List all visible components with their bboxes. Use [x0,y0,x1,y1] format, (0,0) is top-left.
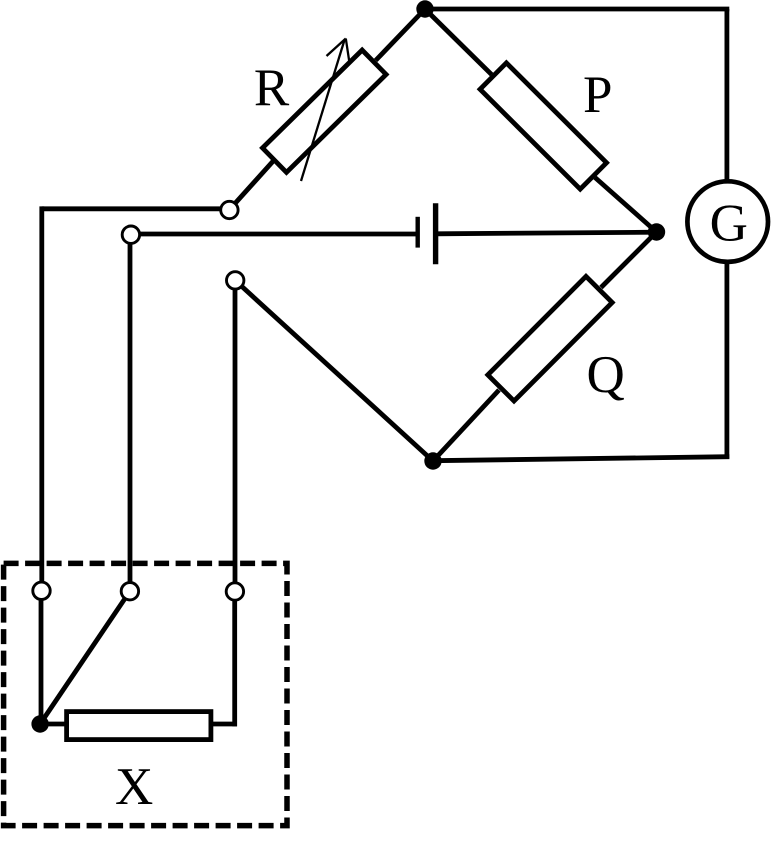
wire top node to P upper terminal [425,9,492,75]
node D terminal circle [227,272,244,289]
node at top junction dot [416,0,433,17]
wire galvanometer to bottom right corner [725,262,730,459]
wire to X right terminal [213,722,237,727]
svg-text:R: R [254,59,290,117]
wire right vertical upper to galvanometer [725,9,730,182]
svg-text:X: X [115,758,153,816]
wire node A to left corner [42,206,229,211]
wire middle vertical drop [128,236,133,586]
wire terminal F diagonal to bottom left dot [40,591,130,724]
svg-text:Q: Q [586,346,624,404]
battery positive plate [433,203,438,264]
wire node B to Q upper terminal [601,232,657,288]
galvanometer G [687,181,768,262]
wire terminal E to bottom left dot [39,596,44,724]
node C terminal circle [122,226,139,243]
node B junction dot [648,223,665,240]
bottom node junction dot [424,452,441,469]
svg-text:P: P [583,66,612,124]
resistor R body [262,50,386,172]
wire R lower terminal to node A [230,161,273,209]
terminal F circle [121,583,138,600]
wire Q lower terminal to bottom node [433,390,499,461]
resistor X body [67,712,211,740]
bottom left junction dot [31,715,48,732]
wire battery to node B [436,232,657,234]
wire top node to R upper terminal [376,9,425,60]
wire node C to battery [130,232,415,237]
terminal E circle [33,582,50,599]
wire left vertical drop [39,206,44,586]
resistor P body [480,63,606,189]
svg-text:G: G [710,195,748,253]
wire P lower terminal to node B [595,178,657,233]
wire dot to X left terminal [40,722,66,727]
wire third vertical drop [233,282,238,586]
battery negative plate [416,217,420,248]
dashed enclosure box of X [4,563,287,825]
variable resistor arrow of R [301,39,350,182]
node A terminal circle [221,201,238,218]
wire bottom node to bottom right corner [433,457,729,461]
wire top node to top right corner [425,7,729,12]
resistor Q body [488,276,612,401]
wire terminal H down [232,596,237,726]
wire node D to bottom node [235,280,433,461]
terminal H circle [226,583,243,600]
